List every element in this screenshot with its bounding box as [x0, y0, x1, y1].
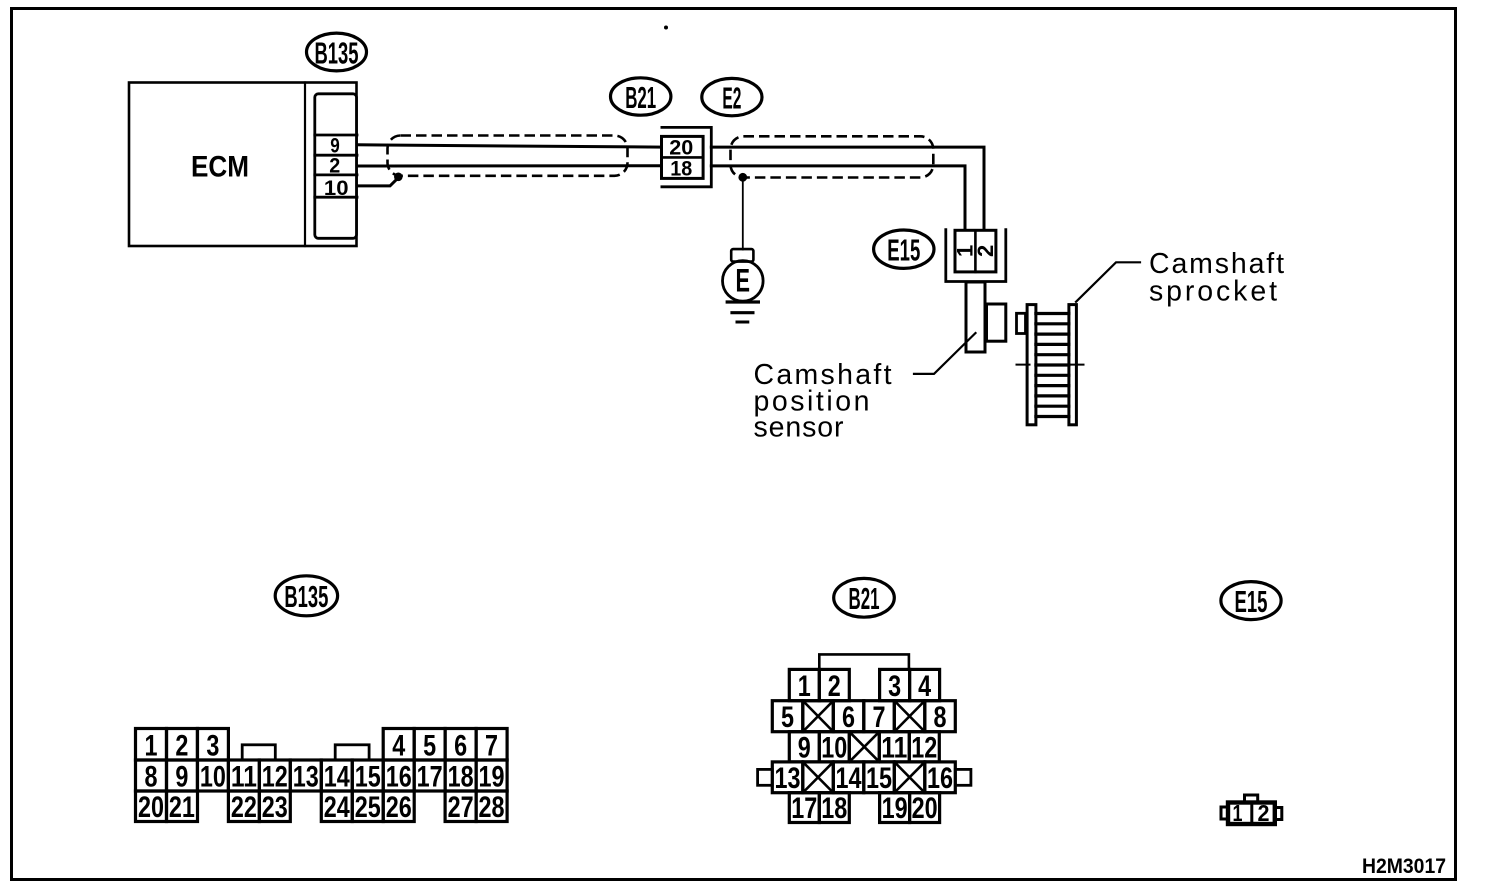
wire: B21 pin 20 to E15 pin 2	[711, 147, 984, 229]
svg-text:22: 22	[231, 791, 257, 824]
svg-text:9: 9	[175, 761, 188, 794]
svg-text:12: 12	[911, 731, 937, 764]
connector label E15 (bottom oval)	[1221, 582, 1281, 620]
svg-text:12: 12	[262, 761, 288, 794]
svg-text:17: 17	[791, 792, 817, 825]
svg-text:15: 15	[355, 761, 381, 794]
connector label B135 (top oval)	[307, 33, 367, 71]
inline connector E15 pin cells	[955, 230, 996, 272]
svg-text:16: 16	[927, 762, 953, 795]
svg-text:13: 13	[775, 762, 801, 795]
svg-text:10: 10	[821, 731, 847, 764]
shielded cable 2 (dashed shield)	[731, 136, 934, 177]
svg-text:2: 2	[329, 154, 340, 177]
inline connector B21/E2 bracket	[662, 127, 711, 186]
svg-text:14: 14	[836, 762, 862, 795]
svg-text:18: 18	[670, 157, 692, 180]
svg-text:B21: B21	[625, 80, 656, 115]
wire: ECM pin 9 to B21 pin 20	[357, 145, 662, 147]
svg-text:2: 2	[973, 245, 998, 257]
svg-text:E2: E2	[722, 80, 741, 115]
svg-text:16: 16	[386, 761, 412, 794]
svg-text:1: 1	[145, 730, 158, 763]
svg-text:B135: B135	[315, 35, 359, 70]
svg-text:7: 7	[485, 730, 498, 763]
connector B135 pinout grid	[136, 729, 508, 825]
leader: camshaft position sensor	[914, 333, 976, 374]
svg-text:18: 18	[448, 761, 474, 794]
svg-text:2: 2	[175, 730, 188, 763]
svg-text:28: 28	[479, 791, 505, 824]
svg-text:3: 3	[888, 670, 901, 703]
connector label B21 (top oval)	[611, 78, 671, 115]
svg-text:6: 6	[454, 730, 467, 763]
svg-text:ECM: ECM	[191, 150, 249, 183]
svg-text:E15: E15	[1235, 584, 1268, 619]
svg-text:1: 1	[1233, 800, 1243, 826]
connector label B21 (bottom oval)	[834, 578, 895, 617]
label: Camshaft sprocket	[1149, 248, 1284, 308]
wire: shield to ground E	[742, 177, 744, 249]
svg-text:21: 21	[169, 791, 195, 824]
ground hatch	[727, 302, 758, 322]
svg-text:5: 5	[781, 701, 794, 734]
svg-text:2: 2	[828, 670, 841, 703]
camshaft sprocket	[1017, 305, 1077, 425]
ECM connector strip B135	[315, 94, 357, 239]
svg-text:20: 20	[912, 792, 938, 825]
label: Camshaft position sensor	[754, 359, 892, 443]
svg-text:24: 24	[324, 791, 350, 824]
svg-text:10: 10	[324, 177, 349, 200]
svg-text:sensor: sensor	[754, 412, 845, 444]
connector label E2 (top oval)	[702, 78, 762, 115]
connector label B135 (bottom oval)	[275, 576, 337, 616]
svg-text:4: 4	[918, 670, 931, 703]
connector label E15 (top oval)	[874, 230, 934, 268]
shield junction dot (pin 10)	[394, 173, 403, 182]
svg-text:25: 25	[355, 791, 381, 824]
svg-text:18: 18	[821, 792, 847, 825]
svg-text:20: 20	[138, 791, 164, 824]
svg-text:19: 19	[479, 761, 505, 794]
svg-text:10: 10	[200, 761, 226, 794]
svg-text:17: 17	[417, 761, 443, 794]
shielded cable 1 (dashed shield)	[388, 136, 628, 176]
svg-text:15: 15	[866, 762, 892, 795]
svg-text:B21: B21	[849, 581, 880, 616]
svg-text:19: 19	[882, 792, 908, 825]
svg-text:23: 23	[262, 791, 288, 824]
svg-text:20: 20	[669, 137, 693, 160]
svg-text:9: 9	[798, 731, 811, 764]
svg-text:11: 11	[231, 761, 257, 794]
svg-text:4: 4	[392, 730, 405, 763]
ECM box	[129, 83, 357, 247]
svg-text:14: 14	[324, 761, 350, 794]
wire: ECM pin 2 to B21 pin 18	[357, 164, 662, 167]
inline connector B21/E2 pin cells	[662, 136, 704, 178]
connector B21 pinout grid	[758, 654, 971, 825]
svg-text:E: E	[736, 262, 751, 298]
wire: B21 pin 18 to E15 pin 1	[711, 166, 965, 230]
sprocket centerline	[1016, 364, 1089, 366]
svg-text:3: 3	[206, 730, 219, 763]
svg-text:5: 5	[423, 730, 436, 763]
svg-text:11: 11	[881, 731, 907, 764]
svg-text:sprocket: sprocket	[1149, 276, 1277, 308]
svg-text:B135: B135	[284, 579, 328, 614]
inline connector E15 bracket	[946, 230, 1006, 282]
camshaft position sensor body	[966, 282, 1006, 352]
svg-text:13: 13	[293, 761, 319, 794]
svg-text:E15: E15	[887, 233, 920, 268]
svg-text:1: 1	[798, 670, 811, 703]
svg-text:6: 6	[842, 701, 855, 734]
leader: camshaft sprocket	[1076, 262, 1140, 302]
svg-text:26: 26	[386, 791, 412, 824]
svg-text:H2M3017: H2M3017	[1362, 854, 1446, 878]
ground E terminal box	[731, 249, 753, 262]
svg-text:27: 27	[448, 791, 474, 824]
wire: ECM pin 10 to cable shield	[357, 179, 398, 186]
svg-text:8: 8	[934, 701, 947, 734]
svg-text:2: 2	[1258, 800, 1270, 826]
svg-text:7: 7	[873, 701, 886, 734]
ground E circle	[723, 261, 764, 302]
shield junction dot (ground)	[738, 173, 747, 182]
svg-text:8: 8	[145, 761, 158, 794]
connector E15 pinout	[1221, 795, 1282, 826]
